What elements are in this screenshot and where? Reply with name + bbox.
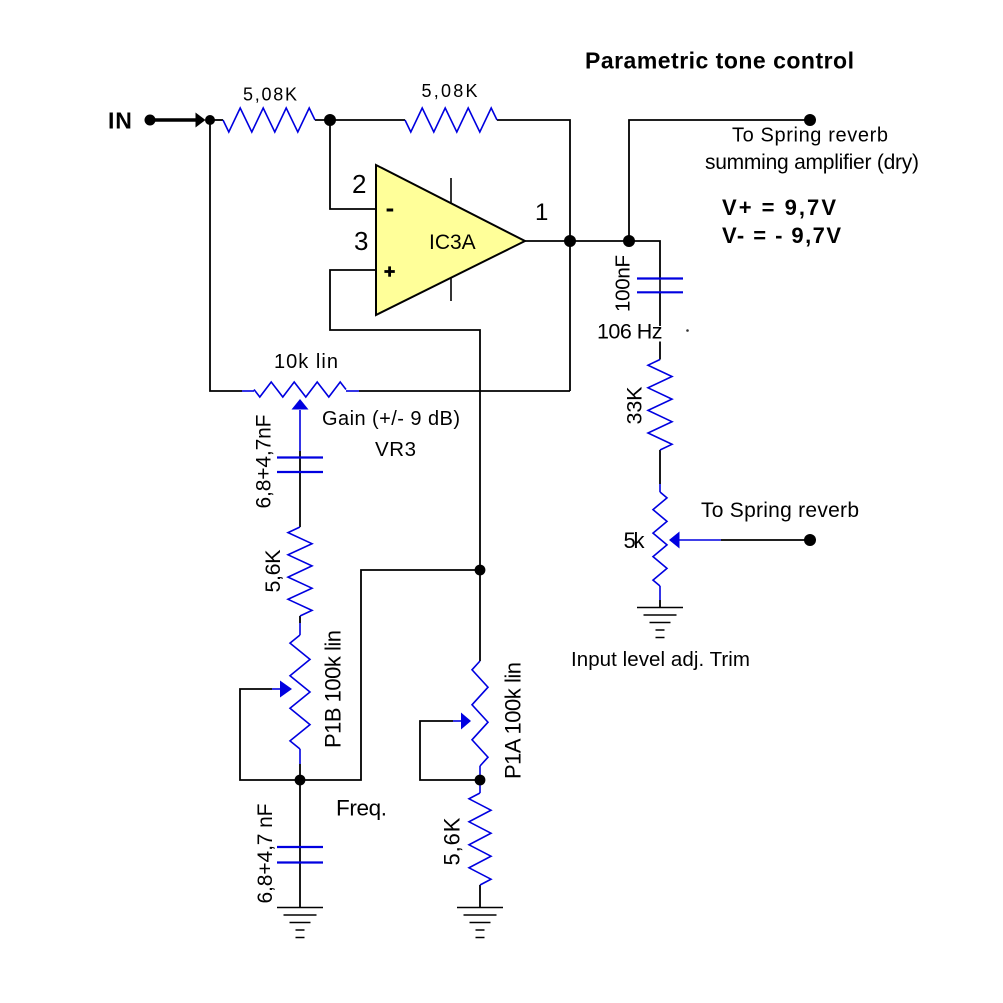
svg-text:3: 3 xyxy=(354,226,368,256)
svg-text:Input level adj. Trim: Input level adj. Trim xyxy=(571,648,750,671)
capacitor C3 100nF plates xyxy=(637,277,683,279)
svg-text:To Spring reverb: To Spring reverb xyxy=(732,125,888,147)
op-amp plus sign xyxy=(384,270,394,273)
wire gain pot rail left xyxy=(210,120,242,391)
svg-text:P1A 100k lin: P1A 100k lin xyxy=(501,662,526,779)
wire R3 to P1B blue lead xyxy=(299,623,301,635)
ground under 5k xyxy=(637,608,683,638)
wire P1B wiper blue segment xyxy=(272,688,280,690)
wire input node to R1 and top rail xyxy=(210,119,223,121)
svg-text:VR3: VR3 xyxy=(375,438,416,461)
wire R3 to P1B black lead xyxy=(299,616,301,623)
svg-text:summing amplifier (dry): summing amplifier (dry) xyxy=(705,151,919,174)
ground under C2 xyxy=(277,908,323,938)
svg-text:10k lin: 10k lin xyxy=(274,351,338,373)
potentiometer P1A track xyxy=(472,661,488,766)
svg-text:IN: IN xyxy=(108,107,133,133)
wire gain pot rail right xyxy=(359,390,570,392)
potentiometer VR3 10k track xyxy=(242,390,254,392)
wire 5k lead blue top xyxy=(659,484,661,492)
wire 5k bottom blue lead xyxy=(659,586,661,600)
stray dot artifact xyxy=(686,329,689,332)
terminal trim send dot xyxy=(804,534,816,546)
wire node A down to inverting input xyxy=(330,120,376,209)
svg-text:V+ = 9,7V: V+ = 9,7V xyxy=(722,195,836,220)
wire output branch up to dry send xyxy=(629,120,806,241)
wire 100nF to 33K xyxy=(659,292,661,360)
wire 5k wiper blue segment xyxy=(680,539,722,541)
svg-text:To Spring reverb: To Spring reverb xyxy=(701,499,859,522)
node non-inverting junction xyxy=(475,565,486,576)
svg-text:5,08K: 5,08K xyxy=(422,81,478,101)
wire op-amp output rail xyxy=(525,241,660,278)
trimmer R6 5k track xyxy=(653,492,667,586)
resistor R4 5,6K xyxy=(469,793,491,885)
svg-text:IC3A: IC3A xyxy=(429,231,476,254)
wire non-inv node down to P1A xyxy=(479,570,481,661)
input arrowhead xyxy=(196,113,206,128)
svg-text:Gain (+/- 9 dB): Gain (+/- 9 dB) xyxy=(322,408,460,430)
svg-text:6,8+4,7nF: 6,8+4,7nF xyxy=(253,415,276,509)
input terminal dot xyxy=(145,115,156,126)
svg-text:5,6K: 5,6K xyxy=(261,549,285,593)
svg-text:2: 2 xyxy=(352,169,366,199)
node output branch junction xyxy=(623,235,635,247)
potentiometer P1B track xyxy=(290,635,310,749)
wire R2 to feedback corner and down to output node xyxy=(497,120,570,391)
node freq junction xyxy=(295,775,306,786)
wiper arrow P1A xyxy=(461,713,471,730)
capacitor C2 6,8+4,7 nF plates xyxy=(277,846,323,848)
wire 33K to 5k trim xyxy=(659,450,661,484)
op-amp power stub bottom xyxy=(450,278,452,302)
op-amp minus sign xyxy=(387,209,394,212)
svg-text:33K: 33K xyxy=(623,386,647,425)
wire P1A bottom blue lead xyxy=(479,766,481,793)
wire P1A wiper arm xyxy=(420,721,480,780)
resistor R5 33K xyxy=(648,360,672,451)
ground under R4 xyxy=(457,908,503,938)
wiper arrow P1B xyxy=(280,681,292,698)
node output junction xyxy=(564,235,576,247)
wire freq node to P1A node xyxy=(300,570,480,780)
wire C3 between plates xyxy=(659,278,661,292)
wire 5k wiper to trim terminal xyxy=(721,539,806,541)
wire P1B bottom blue lead xyxy=(299,749,301,764)
wiper arrow VR3 xyxy=(292,399,309,410)
svg-text:V- = - 9,7V: V- = - 9,7V xyxy=(722,223,841,248)
wire C2 to ground xyxy=(299,847,301,908)
wire VR3 wiper blue drop xyxy=(299,410,301,451)
node A input junction xyxy=(205,115,215,125)
svg-text:Freq.: Freq. xyxy=(336,796,387,821)
svg-text:P1B 100k lin: P1B 100k lin xyxy=(321,630,346,748)
wire P1B bottom to node xyxy=(299,764,301,780)
wire freq node down to C2 xyxy=(299,780,301,847)
wire P1B wiper arm xyxy=(240,689,300,780)
wire R1 to R2 through inverting node xyxy=(315,119,405,121)
svg-text:106 Hz: 106 Hz xyxy=(597,320,663,344)
svg-text:6,8+4,7 nF: 6,8+4,7 nF xyxy=(254,804,277,904)
wire VR3 wiper to C1 and R3 xyxy=(299,451,301,527)
label 106 Hz xyxy=(596,326,666,342)
svg-text:5k: 5k xyxy=(624,528,646,553)
wire R4 to ground xyxy=(479,885,481,908)
wire non-inverting input loop xyxy=(330,270,480,570)
svg-text:100nF: 100nF xyxy=(612,255,635,312)
op-amp power stub top xyxy=(450,178,452,204)
resistor R1 5,08K xyxy=(223,108,315,132)
input arrow shaft xyxy=(150,118,197,121)
capacitor C1 6,8+4,7nF plates xyxy=(277,456,323,458)
resistor R3 5,6K xyxy=(288,527,312,616)
wire 5k to ground xyxy=(659,600,661,608)
svg-text:5,6K: 5,6K xyxy=(440,817,465,865)
resistor R2 5,08K xyxy=(405,108,497,132)
node B inverting junction xyxy=(324,114,336,126)
wire P1A wiper blue segment xyxy=(453,720,461,722)
op-amp U1 IC3A body xyxy=(376,165,525,315)
wiper arrow 5k xyxy=(669,532,680,549)
svg-text:Parametric tone control: Parametric tone control xyxy=(585,48,854,74)
terminal dry send dot xyxy=(804,114,816,126)
svg-text:5,08K: 5,08K xyxy=(243,85,297,105)
svg-text:1: 1 xyxy=(535,199,548,226)
node P1A junction xyxy=(475,775,486,786)
